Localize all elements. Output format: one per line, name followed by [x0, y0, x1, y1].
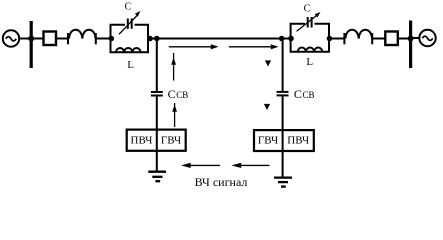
node: left trap right terminal	[147, 36, 153, 42]
svg-text:СВ: СВ	[176, 90, 188, 100]
junction on right busbar	[408, 36, 414, 42]
line trap 1 frame (rectangle, top edge gapped for capacitor)	[111, 25, 149, 53]
HF choke / CT symbol left (two arcs with end ticks)	[68, 30, 96, 45]
right coupling drop wire (lower part, through HF set to ground)	[282, 95, 284, 176]
right coupling drop wire (upper part)	[282, 39, 284, 92]
breaker Q2 (square)	[385, 32, 398, 46]
capacitor C1 (variable, in trap 1 top branch)	[119, 11, 141, 34]
svg-text:ВЧ сигнал: ВЧ сигнал	[195, 175, 248, 189]
ground (right HF set)	[274, 178, 292, 187]
svg-text:С: С	[168, 87, 176, 101]
line trap 2 frame (rectangle, top edge gapped for capacitor)	[291, 24, 329, 52]
HF terminal box right (ГВЧ | ПВЧ)	[254, 130, 314, 151]
svg-text:L: L	[306, 56, 313, 68]
HF choke / CT symbol right (two arcs with end ticks)	[344, 30, 372, 45]
right busbar	[409, 21, 412, 69]
signal arrow up (left, below Ссв)	[172, 103, 177, 127]
generator G2 (right AC source)	[419, 30, 435, 46]
wire breaker to choke	[57, 38, 70, 40]
svg-text:СВ: СВ	[303, 90, 315, 100]
signal arrow up (left, above Ссв)	[171, 53, 176, 81]
HF terminal box left (ПВЧ | ГВЧ)	[127, 130, 186, 151]
left busbar	[30, 21, 33, 68]
signal direction arrow (top, first)	[169, 44, 219, 49]
wire choke to line trap	[96, 38, 111, 40]
signal direction arrow (top, second)	[229, 44, 279, 49]
wire busbar to G2	[412, 37, 420, 39]
junction on left busbar	[28, 36, 34, 42]
ground (left HF set)	[148, 172, 166, 182]
wire choke to breaker 2	[372, 38, 385, 40]
breaker Q1 (square)	[44, 32, 57, 46]
left coupling drop wire (lower part, through HF set to ground)	[156, 96, 158, 172]
wire busbar to breaker	[33, 38, 43, 40]
inductor L2 (trap 2 bottom branch)	[298, 48, 323, 52]
node: right trap left terminal	[288, 36, 294, 42]
node: right trap right terminal	[327, 36, 333, 42]
left coupling drop wire (upper part)	[156, 39, 158, 92]
svg-text:С: С	[294, 87, 302, 101]
coupling capacitor Ссв right	[277, 92, 289, 96]
signal arrowhead down (right, above Ссв)	[265, 60, 271, 66]
svg-text:ГВЧ: ГВЧ	[161, 134, 181, 146]
wire G1 to left busbar	[19, 38, 30, 40]
label Ссв left	[168, 87, 189, 101]
svg-text:C: C	[304, 3, 311, 14]
wire breaker 2 to right busbar	[398, 38, 410, 40]
capacitor C2 (variable, in trap 2 top branch)	[297, 12, 321, 31]
svg-text:ГВЧ: ГВЧ	[258, 135, 278, 147]
inductor L1 (trap 1 bottom branch)	[116, 48, 141, 52]
wire trap 2 to right choke	[329, 38, 345, 40]
node: left coupling tap junction	[154, 36, 160, 42]
transmission line (between traps)	[148, 38, 291, 40]
svg-text:ПВЧ: ПВЧ	[287, 135, 309, 147]
return signal arrow (bottom, second, pointing left)	[232, 163, 270, 168]
return signal arrow (bottom, first, pointing left)	[181, 163, 220, 168]
label Ссв right	[294, 87, 315, 101]
node: left trap left terminal	[109, 36, 115, 42]
node: right coupling tap junction	[279, 36, 285, 42]
svg-text:L: L	[127, 59, 134, 71]
svg-text:ПВЧ: ПВЧ	[131, 134, 153, 146]
signal arrowhead down (right, below Ссв)	[264, 104, 270, 110]
coupling capacitor Ссв left	[151, 92, 163, 96]
svg-text:C: C	[125, 2, 132, 13]
generator G1 (left AC source)	[3, 30, 19, 46]
